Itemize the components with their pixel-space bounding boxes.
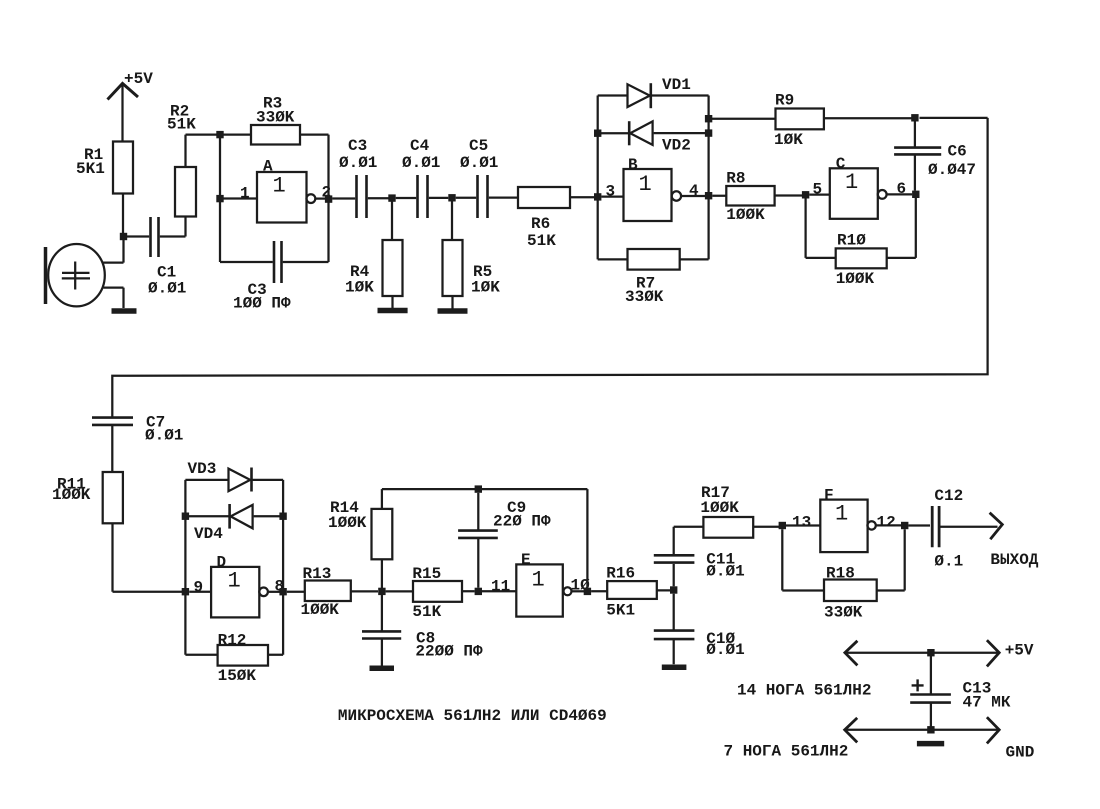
svg-text:GND: GND bbox=[1006, 744, 1035, 762]
svg-text:5: 5 bbox=[813, 181, 823, 199]
resistor R4 bbox=[345, 201, 403, 308]
capacitor C12 bbox=[908, 487, 997, 571]
node: R13/R14/C8 junction bbox=[378, 588, 385, 595]
capacitor C11 bbox=[654, 527, 745, 587]
svg-text:D: D bbox=[217, 554, 227, 572]
capacitor C1 bbox=[127, 217, 187, 298]
node: pin1 input bbox=[216, 195, 223, 202]
svg-text:9: 9 bbox=[194, 579, 204, 597]
wire right limiter vertical bbox=[707, 96, 709, 260]
arrow +5V rail left bbox=[845, 641, 858, 666]
resistor R10 bbox=[806, 198, 916, 289]
svg-text:12: 12 bbox=[877, 514, 896, 532]
svg-text:R12: R12 bbox=[218, 632, 247, 650]
node: C9 top bbox=[475, 485, 482, 492]
capacitor C8 bbox=[362, 595, 483, 666]
wire pin 12 output bbox=[876, 524, 901, 526]
op-amp inverter B bbox=[624, 156, 682, 221]
capacitor C3 series 0.01 bbox=[332, 137, 388, 218]
svg-text:1ØØK: 1ØØK bbox=[52, 486, 91, 504]
svg-text:Ø.1: Ø.1 bbox=[934, 553, 963, 571]
capacitor C3 100pF feedback bbox=[220, 241, 329, 313]
resistor R17 bbox=[700, 484, 779, 538]
diode VD1 bbox=[598, 76, 709, 108]
op-amp inverter F bbox=[820, 487, 876, 553]
node: C9 bottom / pin 11 bbox=[475, 588, 482, 595]
capacitor C10 bbox=[654, 594, 745, 665]
node: VD2 right bbox=[705, 129, 712, 136]
svg-text:1: 1 bbox=[273, 174, 286, 199]
svg-text:R16: R16 bbox=[606, 565, 635, 583]
svg-text:R18: R18 bbox=[826, 565, 855, 583]
capacitor C13 bbox=[910, 656, 1011, 730]
svg-text:Ø.Ø1: Ø.Ø1 bbox=[460, 154, 498, 172]
node: R16/C10/C11 junction bbox=[670, 586, 677, 593]
svg-text:51K: 51K bbox=[412, 603, 441, 621]
svg-text:1: 1 bbox=[240, 185, 250, 203]
ground (microphone) bbox=[112, 308, 137, 314]
svg-text:VD2: VD2 bbox=[662, 137, 691, 155]
output arrow bbox=[990, 513, 1003, 540]
svg-text:C5: C5 bbox=[469, 137, 488, 155]
svg-text:R13: R13 bbox=[303, 565, 332, 583]
resistor R7 bbox=[598, 249, 709, 306]
op-amp inverter D bbox=[211, 554, 268, 618]
svg-text:1: 1 bbox=[532, 568, 545, 593]
svg-text:VD4: VD4 bbox=[194, 525, 223, 543]
node 8 bbox=[279, 588, 286, 595]
resistor R16 bbox=[591, 565, 670, 620]
node: VD4 left bbox=[182, 513, 189, 520]
wire long feedback loop to stage 2 bbox=[112, 118, 987, 418]
svg-text:15ØK: 15ØK bbox=[218, 667, 257, 685]
ground (C13) bbox=[917, 741, 944, 747]
svg-text:13: 13 bbox=[792, 514, 811, 532]
svg-text:A: A bbox=[263, 158, 273, 176]
wire left feedback vertical bbox=[219, 138, 221, 262]
svg-text:5K1: 5K1 bbox=[76, 160, 105, 178]
svg-text:14 НОГА 561ЛН2: 14 НОГА 561ЛН2 bbox=[737, 682, 871, 700]
arrow GND rail right bbox=[987, 717, 999, 743]
diode VD3 bbox=[185, 460, 283, 492]
svg-text:1ØØK: 1ØØK bbox=[301, 601, 340, 619]
wire left limiter vertical bbox=[597, 96, 599, 260]
wire pin 13 bbox=[786, 524, 820, 526]
node 4 bbox=[705, 192, 712, 199]
ground (R4) bbox=[378, 308, 408, 314]
wire +5V rail bbox=[845, 652, 999, 654]
svg-text:7 НОГА 561ЛН2: 7 НОГА 561ЛН2 bbox=[724, 743, 849, 761]
wire mic top to node bbox=[103, 239, 124, 263]
svg-text:C4: C4 bbox=[410, 137, 430, 155]
arrow GND rail left bbox=[845, 718, 858, 743]
svg-text:Ø.Ø1: Ø.Ø1 bbox=[145, 427, 183, 445]
wire right limiter2 vertical bbox=[282, 480, 284, 655]
wire left limiter2 vertical bbox=[184, 480, 186, 655]
ground (C10) bbox=[662, 664, 687, 670]
resistor R3 bbox=[224, 95, 329, 145]
svg-text:1ØK: 1ØK bbox=[471, 279, 500, 297]
wire GND rail bbox=[845, 729, 999, 731]
wire oscillator right vertical bbox=[586, 489, 588, 588]
svg-text:3: 3 bbox=[606, 183, 616, 201]
svg-text:47 МК: 47 МК bbox=[963, 694, 1011, 712]
node 3 bbox=[594, 193, 601, 200]
svg-text:VD3: VD3 bbox=[188, 460, 217, 478]
op-amp inverter E bbox=[516, 551, 571, 617]
svg-text:33ØK: 33ØK bbox=[824, 604, 863, 622]
svg-text:R15: R15 bbox=[412, 565, 441, 583]
node: R9/C6 junction bbox=[911, 114, 918, 121]
wire pin 2 output bbox=[315, 197, 328, 199]
svg-text:E: E bbox=[521, 551, 531, 569]
svg-text:R6: R6 bbox=[531, 215, 550, 233]
wire pin 6 output bbox=[887, 193, 913, 195]
svg-text:МИКРОСХЕМА 561ЛН2 ИЛИ CD4Ø69: МИКРОСХЕМА 561ЛН2 ИЛИ CD4Ø69 bbox=[338, 707, 607, 725]
svg-text:1: 1 bbox=[228, 569, 241, 594]
node: R9 branch bbox=[705, 115, 712, 122]
svg-text:Ø.Ø1: Ø.Ø1 bbox=[148, 280, 186, 298]
svg-text:11: 11 bbox=[491, 578, 510, 596]
resistor R9 bbox=[709, 92, 988, 150]
svg-text:51K: 51K bbox=[167, 116, 196, 134]
svg-text:4: 4 bbox=[689, 182, 699, 200]
svg-text:VD1: VD1 bbox=[662, 76, 691, 94]
resistor R5 bbox=[443, 201, 501, 309]
svg-text:R1Ø: R1Ø bbox=[837, 232, 866, 250]
node: pin 2 output bbox=[325, 195, 332, 202]
node: R2/R3/pin1 branch (upper) bbox=[216, 131, 223, 138]
svg-text:1: 1 bbox=[639, 172, 652, 197]
svg-text:Ø.Ø1: Ø.Ø1 bbox=[402, 154, 440, 172]
resistor R8 bbox=[712, 170, 802, 225]
svg-text:C3: C3 bbox=[348, 137, 367, 155]
svg-text:F: F bbox=[824, 487, 834, 505]
resistor R15 bbox=[386, 565, 517, 621]
wire right feedback vertical bbox=[327, 135, 329, 262]
capacitor C6 bbox=[894, 121, 976, 190]
wire pin 10 output bbox=[572, 590, 588, 592]
svg-text:Ø.Ø1: Ø.Ø1 bbox=[706, 641, 744, 659]
wire pin 3 bbox=[601, 195, 623, 197]
node: C4/C5/R5 junction bbox=[448, 194, 455, 201]
svg-text:R8: R8 bbox=[726, 170, 745, 188]
svg-text:Ø.Ø1: Ø.Ø1 bbox=[339, 154, 377, 172]
ground (C8) bbox=[370, 666, 395, 672]
capacitor C4 bbox=[396, 137, 449, 218]
node 13 bbox=[779, 522, 786, 529]
capacitor C5 bbox=[456, 137, 518, 218]
svg-text:22ØØ ПФ: 22ØØ ПФ bbox=[415, 643, 483, 661]
ground (R5) bbox=[438, 308, 468, 314]
svg-text:1: 1 bbox=[845, 170, 858, 195]
node: VD4 right bbox=[279, 513, 286, 520]
diode VD4 bbox=[185, 504, 283, 543]
node: C13 bottom bbox=[927, 726, 934, 733]
op-amp inverter C bbox=[830, 155, 887, 219]
wire pin 1 bbox=[224, 197, 258, 199]
wire pin 5 bbox=[809, 193, 830, 195]
capacitor C9 bbox=[458, 493, 551, 588]
capacitor C7 bbox=[92, 414, 183, 473]
resistor R2 bbox=[167, 103, 217, 217]
svg-text:6: 6 bbox=[897, 180, 907, 198]
svg-text:R9: R9 bbox=[775, 92, 794, 110]
node 9 bbox=[182, 588, 189, 595]
wire pin 8 output bbox=[268, 591, 283, 593]
svg-text:ВЫХОД: ВЫХОД bbox=[990, 551, 1038, 569]
svg-text:5K1: 5K1 bbox=[606, 602, 635, 620]
wire pin 9 bbox=[189, 591, 211, 593]
svg-text:Ø.Ø47: Ø.Ø47 bbox=[928, 161, 976, 179]
svg-text:B: B bbox=[628, 156, 638, 174]
wire oscillator top rail bbox=[382, 488, 588, 490]
resistor R18 bbox=[782, 529, 904, 621]
node: VD2 left bbox=[594, 130, 601, 137]
svg-text:C6: C6 bbox=[948, 143, 967, 161]
svg-text:1ØØ ПФ: 1ØØ ПФ bbox=[233, 295, 291, 313]
node: C3/C4/R4 junction bbox=[388, 194, 395, 201]
resistor R13 bbox=[287, 565, 378, 619]
node 6 bbox=[912, 191, 919, 198]
wire pin 4 output bbox=[681, 195, 708, 197]
svg-text:1ØØK: 1ØØK bbox=[836, 270, 875, 288]
svg-text:1: 1 bbox=[835, 502, 848, 527]
resistor R6 bbox=[518, 187, 594, 250]
+5V supply symbol bbox=[108, 70, 154, 142]
svg-text:1ØK: 1ØK bbox=[774, 131, 803, 149]
svg-text:+5V: +5V bbox=[124, 70, 153, 88]
wire mic bottom to ground bbox=[104, 288, 124, 308]
node: mic/R1/C1 junction bbox=[120, 233, 127, 240]
svg-text:1ØØK: 1ØØK bbox=[700, 499, 739, 517]
node: C13 top bbox=[927, 649, 934, 656]
resistor R12 bbox=[185, 632, 283, 686]
svg-text:33ØK: 33ØK bbox=[256, 109, 295, 127]
arrow +5V rail right bbox=[987, 640, 999, 666]
svg-text:1ØØK: 1ØØK bbox=[726, 206, 765, 224]
node 12 bbox=[901, 522, 908, 529]
svg-text:Ø.Ø1: Ø.Ø1 bbox=[706, 563, 744, 581]
svg-text:51K: 51K bbox=[527, 232, 556, 250]
svg-text:33ØK: 33ØK bbox=[625, 288, 664, 306]
svg-text:1ØK: 1ØK bbox=[345, 279, 374, 297]
microphone BM1 bbox=[46, 244, 105, 306]
resistor R1 bbox=[76, 142, 133, 235]
resistor R14 bbox=[328, 489, 392, 588]
node 5 bbox=[802, 191, 809, 198]
node 10 bbox=[584, 588, 591, 595]
op-amp inverter A bbox=[257, 158, 315, 223]
svg-text:1ØØK: 1ØØK bbox=[328, 514, 367, 532]
svg-text:+5V: +5V bbox=[1005, 642, 1034, 660]
svg-text:C12: C12 bbox=[934, 487, 963, 505]
diode VD2 bbox=[598, 121, 709, 154]
svg-text:22Ø ПФ: 22Ø ПФ bbox=[493, 513, 551, 531]
resistor R11 bbox=[52, 472, 182, 592]
